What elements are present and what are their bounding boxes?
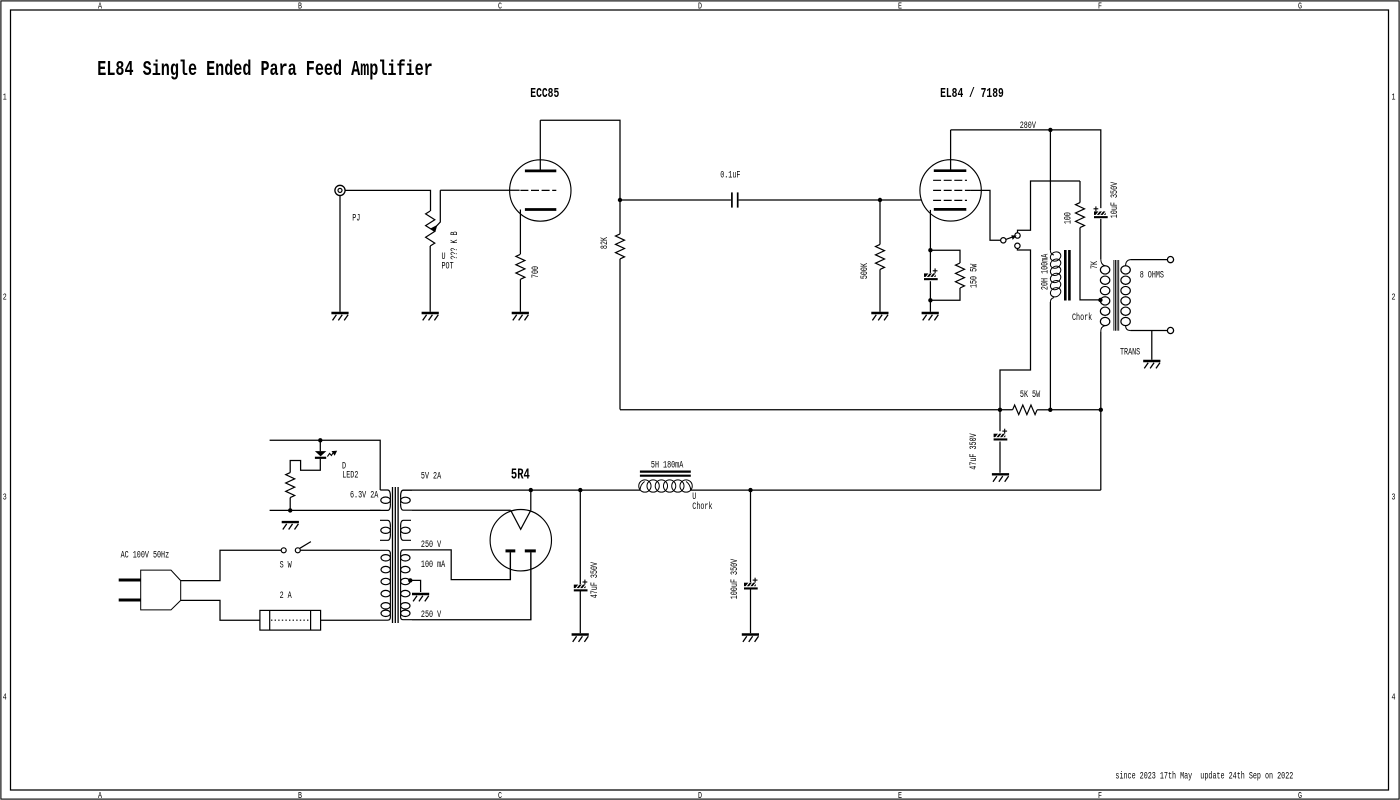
parafeed choke bottom lead bbox=[1049, 302, 1051, 410]
input jack PJ bbox=[335, 185, 345, 195]
svg-text:EL84 / 7189: EL84 / 7189 bbox=[940, 85, 1004, 101]
svg-text:??? K B: ??? K B bbox=[449, 231, 461, 259]
power transformer HV secondary winding bbox=[401, 550, 412, 620]
5R4 left plate lead bbox=[509, 552, 511, 579]
svg-text:7K: 7K bbox=[1089, 260, 1101, 269]
svg-text:5K 5W: 5K 5W bbox=[1020, 389, 1041, 401]
junction B+ riser node bbox=[1099, 408, 1103, 412]
wire 47uF to ground bbox=[999, 442, 1001, 473]
power switch SW lever bbox=[300, 542, 311, 549]
svg-text:2: 2 bbox=[3, 292, 7, 302]
svg-text:1: 1 bbox=[1392, 92, 1396, 102]
LED D emission arrow bbox=[327, 451, 336, 456]
svg-text:B: B bbox=[298, 791, 302, 800]
resistor 150 5W body bbox=[956, 263, 965, 288]
svg-text:100 mA: 100 mA bbox=[421, 559, 446, 571]
junction LED resistor to 6.3V return bbox=[288, 508, 292, 512]
wire 47uF psu to ground bbox=[579, 591, 581, 633]
wire grid node into EL84 bbox=[880, 199, 921, 201]
svg-text:AC 100V 50Hz: AC 100V 50Hz bbox=[121, 549, 170, 561]
wire center tap bbox=[410, 580, 420, 592]
power switch SW left contact bbox=[281, 548, 286, 553]
wire ECC85 plate to 82K node bbox=[540, 120, 620, 200]
capacitor 47uF 350V psu bbox=[574, 580, 588, 592]
svg-text:F: F bbox=[1098, 791, 1102, 800]
ground at 6.3V return bbox=[282, 522, 299, 529]
svg-text:ECC85: ECC85 bbox=[530, 85, 559, 101]
svg-text:G: G bbox=[1298, 791, 1302, 800]
svg-text:3: 3 bbox=[3, 492, 7, 502]
tube 5R4 envelope bbox=[490, 510, 551, 571]
tube EL84 envelope bbox=[920, 160, 981, 221]
net B+ rail bbox=[403, 489, 640, 491]
ground at input jack bbox=[331, 313, 348, 320]
5R4 left plate bar bbox=[506, 549, 516, 552]
svg-text:100: 100 bbox=[1062, 212, 1074, 224]
EL84 grid3 dashed line bbox=[933, 179, 967, 181]
junction parafeed choke bottom node bbox=[1048, 408, 1052, 412]
ECC85 plate lead up bbox=[539, 120, 541, 171]
wire 6.3V top feed bbox=[270, 440, 381, 490]
svg-text:6.3V 2A: 6.3V 2A bbox=[350, 489, 379, 501]
potentiometer wiper arrowhead bbox=[430, 225, 438, 232]
resistor LED dropper body bbox=[286, 473, 295, 498]
EL84 grid1 dashed line bbox=[933, 199, 967, 201]
junction feedback-47uF node bbox=[998, 408, 1002, 412]
wire 150 resistor bottom bbox=[930, 288, 960, 300]
svg-text:D: D bbox=[698, 2, 702, 12]
wire 47uF top lead bbox=[999, 410, 1001, 431]
ground at psu 47uF bbox=[572, 635, 589, 642]
wire OPT secondary to ground bbox=[1151, 331, 1153, 360]
svg-text:D: D bbox=[698, 791, 702, 800]
svg-text:C: C bbox=[498, 791, 502, 800]
svg-text:3: 3 bbox=[1392, 492, 1396, 502]
svg-text:5R4: 5R4 bbox=[511, 466, 530, 483]
svg-text:4: 4 bbox=[1392, 692, 1396, 702]
fuse 2A body bbox=[260, 610, 321, 630]
svg-text:250 V: 250 V bbox=[421, 539, 442, 551]
power transformer spare winding left bbox=[380, 520, 390, 540]
svg-text:A: A bbox=[98, 2, 102, 12]
junction filament B+ takeoff bbox=[529, 488, 533, 492]
parafeed choke top lead bbox=[1049, 130, 1051, 250]
svg-text:S W: S W bbox=[280, 559, 293, 571]
switch S1 lower contact bbox=[1015, 243, 1020, 248]
net 280V rail bbox=[951, 130, 1101, 208]
ground at upper 47uF bbox=[992, 474, 1009, 481]
capacitor 47uF 350V upper bbox=[994, 429, 1008, 441]
svg-text:1: 1 bbox=[3, 92, 7, 102]
wire switch lower contact to feedback node bbox=[1000, 249, 1031, 410]
power transformer 5V winding bbox=[401, 490, 412, 510]
wire 100uF top lead bbox=[750, 490, 752, 582]
wire 82K top lead bbox=[619, 200, 621, 234]
wire plug upper lead bbox=[181, 550, 281, 580]
5R4 filament right riser bbox=[530, 490, 532, 510]
svg-text:E: E bbox=[898, 791, 902, 800]
svg-text:C: C bbox=[498, 2, 502, 12]
svg-text:TRANS: TRANS bbox=[1120, 346, 1140, 358]
tube ECC85 envelope bbox=[510, 160, 571, 221]
wire HV bottom to 5R4 right plate bbox=[412, 552, 531, 619]
net choke-to-B+ link bbox=[1050, 409, 1101, 411]
resistor 100 body bbox=[1076, 203, 1085, 228]
ground at cathode resistor 700 bbox=[512, 313, 529, 320]
wire plug lower lead bbox=[181, 600, 260, 620]
wire potentiometer to ground bbox=[429, 246, 431, 312]
wire 10uF to OPT primary bbox=[1100, 219, 1102, 259]
EL84 g2 lead bbox=[971, 190, 1001, 240]
wire switch upper contact to 100 ohm bbox=[1018, 181, 1081, 233]
svg-text:G: G bbox=[1298, 2, 1302, 12]
wire 47uF psu top lead bbox=[579, 490, 581, 584]
net 6.3V return bbox=[270, 509, 381, 511]
wire 100 ohm to OPT primary tap bbox=[1080, 228, 1100, 300]
wire plate node to coupling cap bbox=[620, 199, 731, 201]
filter choke 5H 180mA winding bbox=[639, 480, 692, 492]
power transformer primary winding bbox=[370, 550, 390, 620]
wire jack to potentiometer top bbox=[345, 190, 431, 211]
svg-text:Chork: Chork bbox=[1072, 312, 1092, 324]
resistor 82K body bbox=[616, 234, 625, 259]
switch S1 common contact bbox=[1001, 238, 1006, 243]
AC plug prongs bbox=[119, 580, 141, 600]
wire 700 resistor to ground bbox=[519, 279, 521, 312]
net B+ to output section bbox=[691, 489, 1101, 491]
switch S1 lever bbox=[1006, 236, 1016, 240]
switch S1 upper contact bbox=[1015, 233, 1020, 238]
svg-text:5V 2A: 5V 2A bbox=[421, 470, 442, 482]
svg-text:EL84 Single Ended Para Feed Am: EL84 Single Ended Para Feed Amplifier bbox=[97, 59, 432, 82]
wire switch to transformer primary bbox=[300, 549, 370, 551]
svg-text:since 2023 17th May update 24: since 2023 17th May update 24th Sep on 2… bbox=[1115, 770, 1293, 782]
power transformer core lines bbox=[393, 487, 399, 623]
junction ECC85 plate node bbox=[618, 198, 622, 202]
ECC85 plate bar bbox=[525, 170, 556, 173]
svg-text:20H 100mA: 20H 100mA bbox=[1040, 253, 1052, 290]
resistor 700 body bbox=[516, 254, 525, 279]
wire fuse to transformer primary bbox=[321, 619, 370, 621]
wire 100uF to ground bbox=[750, 589, 752, 633]
wire 5V winding to filament left bbox=[412, 509, 511, 511]
output transformer secondary winding 8 OHMS bbox=[1121, 260, 1131, 331]
junction EL84 cathode bottom bbox=[928, 298, 932, 302]
wire B+ riser to feedback node bbox=[1100, 410, 1102, 490]
capacitor 10uF 350V bbox=[1094, 206, 1108, 218]
potentiometer wiper wire from grid line bbox=[436, 190, 440, 226]
output transformer TRANS primary winding 7K bbox=[1100, 259, 1109, 331]
capacitor cathode bypass bbox=[924, 268, 938, 280]
svg-text:2: 2 bbox=[1392, 292, 1396, 302]
ground at HV center tap bbox=[412, 594, 429, 601]
capacitor 0.1uF bars bbox=[732, 192, 738, 207]
svg-text:E: E bbox=[898, 2, 902, 12]
output terminal top bbox=[1167, 257, 1173, 263]
EL84 cathode lead bbox=[929, 210, 931, 250]
EL84 cathode bar bbox=[934, 208, 967, 211]
output terminal bottom bbox=[1167, 327, 1173, 333]
wire LED resistor to 6.3V return bbox=[289, 498, 291, 511]
svg-text:280V: 280V bbox=[1020, 120, 1037, 132]
ground at potentiometer bbox=[422, 313, 439, 320]
svg-text:8 OHMS: 8 OHMS bbox=[1140, 269, 1164, 281]
wire OPT secondary top to terminal bbox=[1130, 259, 1167, 261]
5R4 filament V bbox=[511, 510, 531, 529]
wire 82K to feedback line bbox=[619, 259, 621, 410]
power switch SW right contact bbox=[295, 548, 300, 553]
5R4 right plate lead bbox=[530, 552, 532, 619]
resistor 5K 5W body bbox=[1013, 405, 1038, 415]
parafeed choke 20H 100mA winding bbox=[1049, 250, 1063, 302]
svg-text:LED2: LED2 bbox=[342, 469, 358, 481]
ground at EL84 cathode bbox=[922, 313, 939, 320]
junction 47uF B+ node bbox=[578, 488, 582, 492]
svg-text:B: B bbox=[298, 2, 302, 12]
LED D anode lead bbox=[319, 440, 321, 451]
wire cathode to 150 resistor bbox=[930, 250, 960, 263]
EL84 plate bar bbox=[934, 169, 967, 172]
svg-text:POT: POT bbox=[442, 260, 454, 272]
wire 100 ohm top lead bbox=[1079, 181, 1081, 203]
svg-text:0.1uF: 0.1uF bbox=[720, 169, 740, 181]
power transformer spare winding right bbox=[401, 520, 411, 540]
junction EL84 cathode top bbox=[928, 248, 932, 252]
wire HV top to 5R4 left plate bbox=[412, 550, 510, 580]
wire 5K to parafeed node bbox=[1037, 409, 1050, 411]
capacitor 100uF 350V bbox=[744, 578, 758, 590]
parafeed choke core bars bbox=[1065, 250, 1069, 301]
svg-text:100uF 350V: 100uF 350V bbox=[729, 558, 741, 599]
svg-text:10uF 350V: 10uF 350V bbox=[1109, 181, 1121, 218]
wire cathode cap to ground bbox=[929, 281, 931, 312]
wire coupling cap to EL84 grid node bbox=[739, 199, 880, 201]
EL84 grid2 dashed line bbox=[933, 189, 971, 191]
ECC85 grid dashed line bbox=[520, 189, 556, 191]
wire jack to ground bbox=[339, 195, 341, 311]
resistor 500K body bbox=[876, 244, 885, 269]
potentiometer U body bbox=[426, 211, 435, 246]
LED D triangle bbox=[315, 451, 326, 456]
svg-text:82K: 82K bbox=[599, 236, 611, 249]
ground at 100uF bbox=[742, 635, 759, 642]
5R4 right plate bar bbox=[525, 549, 536, 552]
svg-text:Chork: Chork bbox=[692, 501, 712, 513]
ECC85 cathode lead bbox=[519, 210, 521, 255]
output transformer core lines bbox=[1114, 260, 1119, 331]
svg-text:700: 700 bbox=[530, 266, 542, 278]
net feedback line bbox=[620, 409, 1013, 411]
svg-text:500K: 500K bbox=[859, 262, 871, 279]
filter choke core bars bbox=[640, 472, 691, 476]
svg-text:150 5W: 150 5W bbox=[969, 263, 981, 288]
svg-text:47uF 350V: 47uF 350V bbox=[968, 433, 980, 470]
junction 280V rail bbox=[1048, 128, 1052, 132]
LED D cathode bar bbox=[315, 457, 326, 459]
svg-text:A: A bbox=[98, 791, 102, 800]
wire OPT secondary bottom to terminal bbox=[1130, 330, 1167, 332]
AC plug body bbox=[141, 570, 181, 610]
svg-text:250 V: 250 V bbox=[421, 609, 442, 621]
svg-text:2 A: 2 A bbox=[280, 590, 293, 602]
junction EL84 grid node bbox=[878, 198, 882, 202]
wire wiper to ECC85 grid bbox=[440, 189, 519, 191]
svg-text:5H 180mA: 5H 180mA bbox=[651, 459, 684, 471]
ECC85 cathode bar bbox=[525, 208, 556, 211]
LED cathode to resistor jog bbox=[290, 459, 320, 473]
svg-text:47uF 350V: 47uF 350V bbox=[589, 561, 601, 598]
ground at OPT secondary bbox=[1143, 361, 1160, 368]
svg-text:PJ: PJ bbox=[352, 212, 360, 224]
svg-text:F: F bbox=[1098, 2, 1102, 12]
junction OPT primary tap bbox=[1098, 298, 1102, 302]
power transformer 6.3V winding bbox=[370, 490, 390, 510]
wire 500K to ground bbox=[879, 269, 881, 311]
EL84 plate lead up bbox=[950, 130, 952, 171]
wire cathode cap top lead bbox=[929, 250, 931, 273]
wire OPT primary bottom to B+ node bbox=[1100, 331, 1102, 410]
junction LED anode node bbox=[318, 438, 322, 442]
wire 500K top lead bbox=[879, 200, 881, 244]
ground at 500K bbox=[871, 313, 888, 320]
junction 100uF B+ node bbox=[748, 488, 752, 492]
svg-text:4: 4 bbox=[3, 692, 7, 702]
junction HV center tap bbox=[408, 578, 412, 582]
